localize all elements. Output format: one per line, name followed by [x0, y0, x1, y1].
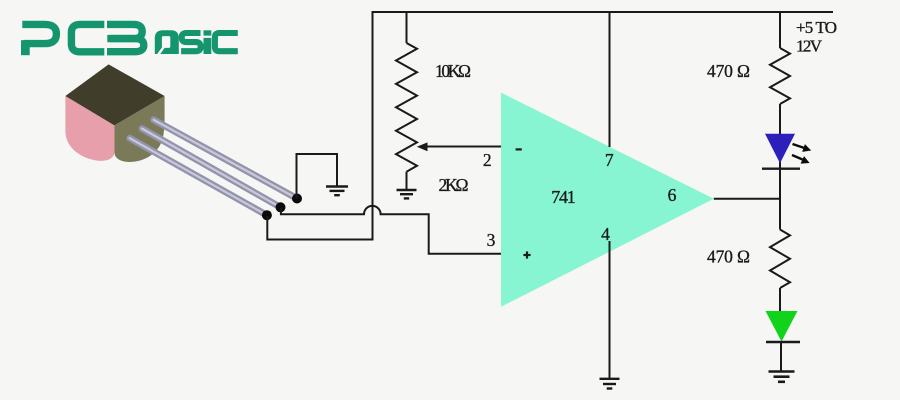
- node dot lead1: [292, 194, 302, 204]
- ground near transistor: [326, 187, 348, 196]
- logo PCBasic: [21, 24, 238, 55]
- resistor R2 470 bottom: [770, 198, 790, 312]
- op-amp pin 4 wire to ground: [609, 241, 611, 378]
- svg-text:12V: 12V: [796, 37, 823, 56]
- node dot lead3: [262, 210, 272, 220]
- transistor Q1 lead 1 (top): [154, 120, 297, 199]
- wire left vertical from rail: [372, 11, 374, 240]
- wire lead1 to ground: [297, 154, 338, 199]
- op-amp plus sign: [523, 251, 530, 258]
- svg-text:+5 TO: +5 TO: [796, 18, 837, 37]
- svg-text:10KΩ: 10KΩ: [435, 61, 471, 81]
- svg-text:470 Ω: 470 Ω: [707, 247, 750, 267]
- svg-text:6: 6: [668, 185, 677, 205]
- op-amp pin 7 wire: [609, 11, 611, 147]
- svg-text:2: 2: [483, 150, 492, 170]
- ground below LED D2: [769, 372, 795, 382]
- svg-text:741: 741: [551, 187, 576, 207]
- svg-text:4: 4: [601, 224, 610, 244]
- resistor R1 470 top: [770, 11, 790, 200]
- transistor Q1 lead 3 (bottom): [130, 138, 267, 215]
- transistor Q1 body: [65, 64, 164, 162]
- transistor Q1 lead 2 (middle): [142, 129, 281, 208]
- svg-text:3: 3: [487, 230, 496, 250]
- potentiometer wiper arrow to pin 2: [417, 142, 502, 151]
- svg-text:7: 7: [605, 150, 614, 170]
- label +5 TO 12V: [796, 18, 837, 56]
- ground below op-amp: [600, 379, 620, 389]
- LED D1 blue: [762, 134, 800, 169]
- op-amp U1 741 triangle: [501, 93, 714, 307]
- wire LED D2 to ground: [780, 342, 782, 371]
- ground below potentiometer: [397, 190, 417, 198]
- svg-text:2KΩ: 2KΩ: [439, 175, 469, 195]
- LED D1 light arrows: [792, 144, 811, 164]
- node dot lead2: [276, 202, 286, 212]
- wire top rail: [373, 11, 834, 13]
- svg-text:470 Ω: 470 Ω: [707, 61, 750, 81]
- LED D2 green: [766, 311, 801, 342]
- wire op-amp output to right branch: [714, 198, 781, 200]
- potentiometer RV1 10K/2K: [396, 11, 417, 190]
- wire lead2 to op-amp pin3 with hop over vertical: [281, 206, 502, 254]
- op-amp minus sign: [516, 148, 522, 150]
- wire lead3 to left vertical: [267, 216, 373, 240]
